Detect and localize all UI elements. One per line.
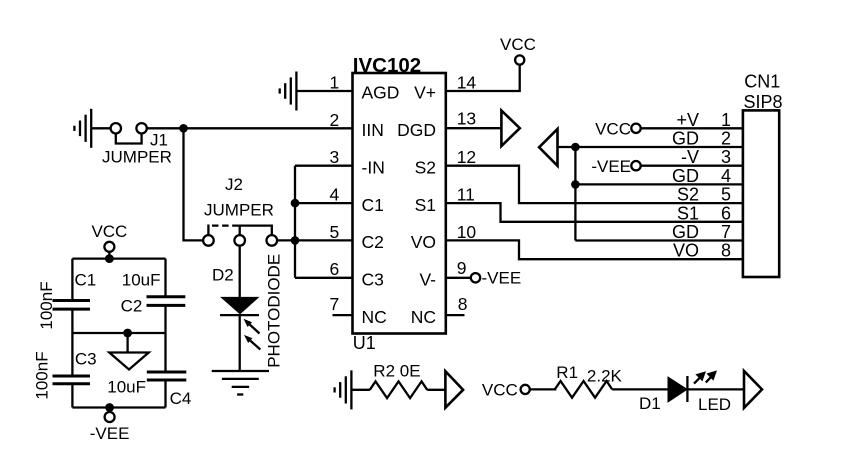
svg-text:4: 4 [329,185,339,205]
wire pin6 C3 [295,277,353,279]
svg-text:VO: VO [673,241,699,261]
svg-text:C1: C1 [362,195,384,215]
connector CN1 SIP8 [743,72,783,278]
svg-text:10uF: 10uF [122,271,161,290]
svg-text:9: 9 [457,258,467,278]
svg-text:13: 13 [457,109,476,129]
ground (R2) [335,370,352,409]
wire pin3 -IN [295,165,353,167]
VCC supply (pin 14) [500,35,536,65]
wire pin1 AGD [296,90,352,92]
wire GD4 row [575,183,743,185]
wire pin13 DGD [446,127,502,129]
svg-text:V-: V- [419,270,436,290]
svg-text:4: 4 [721,166,731,186]
-VEE supply (connector -V) [591,157,640,176]
svg-text:VCC: VCC [595,120,631,139]
node mid rail [123,329,132,338]
svg-text:NC: NC [411,307,436,327]
svg-text:U1: U1 [353,333,376,353]
svg-text:3: 3 [329,147,339,167]
resistor R1 2.2K [555,363,623,398]
svg-text:PHOTODIODE: PHOTODIODE [265,254,284,368]
LED D1 [639,376,731,414]
wire decoupling mid rail [72,332,165,334]
svg-text:1: 1 [329,72,339,92]
node C1 junction [291,199,300,208]
svg-text:11: 11 [457,185,475,205]
node junction J1/IIN [179,124,188,133]
wire VCC to R1 [530,388,557,390]
svg-text:AGD: AGD [362,83,400,103]
svg-text:12: 12 [457,147,476,167]
wire GD vertical [574,147,576,241]
VCC supply (connector +V) [595,120,641,139]
svg-text:100nF: 100nF [33,351,52,399]
arrow DGD out [501,111,519,147]
capacitor C3 100nF [33,350,97,400]
wire pin4 C1 [295,202,353,204]
svg-text:100nF: 100nF [37,281,56,329]
U1 pin numbers right (8-14) [457,72,477,314]
svg-text:-VEE: -VEE [90,424,130,443]
VCC supply (decoupling block) [91,222,127,263]
LED light arrows [694,370,717,383]
svg-text:10uF: 10uF [107,378,146,397]
svg-text:2: 2 [721,129,731,149]
svg-text:J2: J2 [225,175,243,194]
svg-text:14: 14 [457,72,477,92]
svg-text:R1: R1 [556,363,578,382]
jumper J1 [102,123,172,166]
svg-text:S1: S1 [415,195,436,215]
svg-text:C4: C4 [170,389,192,408]
ground (pin 1 AGD) [280,72,297,111]
svg-text:6: 6 [329,259,339,279]
svg-text:DGD: DGD [397,120,436,140]
capacitor C4 10uF [107,372,191,408]
photodiode D2 [212,245,284,371]
node C2 junction [291,236,300,245]
svg-text:10: 10 [457,222,477,242]
svg-text:2: 2 [329,110,339,130]
VCC supply (R1) [482,381,530,400]
wire arrow to GD net [558,146,743,148]
svg-text:JUMPER: JUMPER [102,148,172,167]
svg-text:LED: LED [698,395,731,414]
node bottom rail [105,403,114,412]
wire J1 to IIN pin2 [147,127,353,129]
wire pin14 V+ [446,65,520,91]
svg-text:-V: -V [681,147,699,167]
wire pin5 C2 [295,239,353,241]
connector row labels [672,110,699,261]
node GD2 [571,143,580,152]
svg-text:VO: VO [411,232,436,252]
wire C4 to bottom rail [164,380,166,408]
svg-text:S2: S2 [415,157,436,177]
svg-text:6: 6 [721,203,731,223]
wire decoupling bottom rail [72,406,165,408]
U1 pin names left column [362,83,400,327]
wire right branch upper [164,259,166,297]
svg-text:VCC: VCC [500,35,536,54]
svg-text:S2: S2 [677,185,699,205]
svg-text:-IN: -IN [362,157,385,177]
svg-text:5: 5 [721,185,731,205]
svg-text:5: 5 [329,222,339,242]
op-amp U1 body IVC102 [353,54,446,353]
svg-text:C2: C2 [121,297,143,316]
svg-text:2.2K: 2.2K [587,367,623,386]
connector pin numbers [721,110,731,261]
-VEE supply (pin 9) [471,269,521,288]
svg-text:C1: C1 [75,271,97,290]
svg-text:8: 8 [721,241,731,261]
capacitor C2 10uF [121,271,186,316]
svg-text:-VEE: -VEE [591,157,631,176]
arrow LED out [744,371,762,408]
wire pin7 NC stub [333,314,353,316]
svg-text:C3: C3 [75,350,97,369]
U1 pin numbers left (1-7) [329,72,339,314]
svg-text:7: 7 [329,294,339,314]
svg-text:C2: C2 [362,232,384,252]
wire decoupling top rail [72,257,165,259]
svg-text:S1: S1 [677,203,699,223]
wire -IN/C1/C2/C3 bus vertical [294,166,296,278]
wire left branch upper [71,259,73,301]
-VEE supply (decoupling block) [90,408,130,444]
wire ground to J1 [91,127,110,129]
wire pin10 VO to connector [446,240,743,259]
arrow R2 out [445,371,463,408]
wire left branch lower [71,333,73,376]
jumper J2 [203,175,277,246]
wire +V row [641,127,743,129]
wire R2 to arrow [427,389,445,391]
svg-text:GD: GD [672,129,699,149]
photodiode light arrows [244,319,261,350]
wire ground to R2 [351,389,370,391]
svg-text:GD: GD [672,166,699,186]
svg-text:CN1: CN1 [744,72,780,92]
svg-text:C3: C3 [362,270,384,290]
node GD4 [571,180,580,189]
wire C2 to mid rail [164,305,166,333]
svg-text:IIN: IIN [362,120,384,140]
wire pin8 NC stub [446,314,465,316]
svg-text:D1: D1 [639,394,661,413]
svg-text:3: 3 [721,147,731,167]
svg-text:7: 7 [721,222,731,242]
svg-text:D2: D2 [212,266,234,285]
resistor R2 0E [370,362,427,399]
svg-text:VCC: VCC [482,381,518,400]
wire GD7 row [575,239,743,241]
svg-text:1: 1 [721,110,731,130]
svg-text:VCC: VCC [91,222,127,241]
svg-text:IVC102: IVC102 [353,54,421,77]
ground (J1) [74,109,91,148]
wire junction down to J2 [184,128,204,240]
svg-text:8: 8 [458,294,468,314]
ground (D2) [212,371,269,395]
capacitor C1 100nF [37,271,96,330]
svg-text:JUMPER: JUMPER [204,201,274,220]
svg-text:NC: NC [362,307,387,327]
wire C3 to bottom rail [71,384,73,408]
ground (analog, triangle) [109,333,148,370]
wire C1 to mid rail [71,309,73,333]
wire D1 to arrow [687,388,744,390]
svg-text:+V: +V [676,110,699,130]
wire pin11 S1 to connector [446,203,743,222]
wire right branch lower [164,333,166,372]
svg-text:R2 0E: R2 0E [373,362,420,381]
svg-text:SIP8: SIP8 [744,92,783,112]
wire R1 to D1 [612,388,668,390]
svg-text:-VEE: -VEE [482,269,522,288]
U1 pin names right column [397,83,436,327]
wire pin9 V- stub [446,277,471,279]
svg-text:GD: GD [672,222,699,242]
wire pin12 S2 to connector [446,166,743,203]
wire -V row [641,165,743,167]
svg-text:V+: V+ [414,83,436,103]
arrow GD in [539,129,557,166]
wire J2 to C2 net [277,239,295,241]
